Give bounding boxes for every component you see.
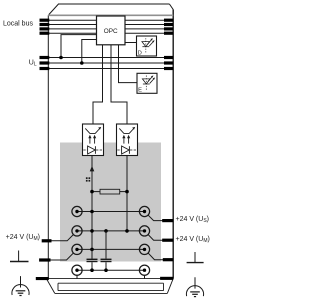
wire terminal 1.4 to PE pad left xyxy=(76,275,78,278)
wire terminal 2.1 to US pad xyxy=(148,215,163,220)
LED indicator D xyxy=(137,36,157,56)
junction row2 a xyxy=(90,229,94,233)
functional earth symbol right xyxy=(187,252,204,263)
junction row1 xyxy=(90,210,94,214)
wire OPC to optocoupler U2 xyxy=(111,45,127,124)
svg-text:OPC: OPC xyxy=(104,28,118,35)
pad FE left xyxy=(39,258,50,261)
pad +24V UM right xyxy=(162,239,173,242)
junction row2 b xyxy=(104,229,108,233)
junction resistor right xyxy=(125,190,129,194)
svg-text:+24 V (UM): +24 V (UM) xyxy=(176,236,210,244)
pad FE right xyxy=(163,258,173,261)
terminal 1.2 xyxy=(72,226,82,236)
wire terminal 1.2 to UM pad left xyxy=(49,235,73,241)
pad +24V UM left xyxy=(42,239,52,242)
local bus line 4 xyxy=(49,32,173,34)
terminal row 3 wire xyxy=(77,248,145,250)
local bus contact pads left xyxy=(40,19,50,35)
svg-text:UL: UL xyxy=(29,59,37,67)
isolated output section shading xyxy=(60,143,161,262)
wire terminal 2.4 to PE pad right xyxy=(144,275,146,278)
svg-text:E: E xyxy=(138,88,142,94)
terminal row 4 wire xyxy=(77,269,145,271)
junction row3 xyxy=(90,248,94,252)
junction row2 c xyxy=(125,229,129,233)
terminal 2.4 xyxy=(139,265,149,275)
wire optocoupler U2 output xyxy=(126,156,128,231)
UL contact pads right xyxy=(164,56,173,70)
svg-text:+24 V (UM): +24 V (UM) xyxy=(6,234,40,242)
svg-text:D: D xyxy=(138,50,142,56)
terminal 2.1 xyxy=(139,206,149,216)
UL supply line 2 xyxy=(49,62,173,64)
wire OPC to optocoupler U1 xyxy=(93,45,103,124)
optocoupler U2 xyxy=(117,124,138,156)
wire OPC to LED D xyxy=(125,42,137,44)
junction resistor left xyxy=(90,190,94,194)
pad +24V US right xyxy=(162,219,173,222)
svg-text:+24 V (US): +24 V (US) xyxy=(176,216,210,224)
terminal 1.3 xyxy=(72,244,82,254)
module foot (DIN rail base) xyxy=(47,279,174,294)
junction on UL1 xyxy=(59,56,63,60)
pad PE left xyxy=(36,277,49,280)
terminal 2.3 xyxy=(139,244,149,254)
protocol chip OPC xyxy=(97,16,126,45)
terminal 1.4 xyxy=(72,265,82,275)
wire bus tap to UL1 xyxy=(61,35,97,58)
terminal row 2 wire xyxy=(77,230,145,232)
LED indicator E xyxy=(137,73,157,93)
local bus contact pads right xyxy=(164,19,173,35)
svg-text:Local bus: Local bus xyxy=(3,21,33,28)
terminal 1.1 xyxy=(72,206,82,216)
junction row4 b xyxy=(104,268,108,272)
signal direction arrow xyxy=(90,166,95,172)
local bus line 1 xyxy=(49,19,173,21)
coding mark xyxy=(86,177,90,181)
capacitor C1 xyxy=(87,249,98,270)
protective earth symbol right xyxy=(186,277,203,296)
pad PE right xyxy=(160,277,173,280)
wire UL2 to OPC xyxy=(82,40,97,64)
protective earth symbol left xyxy=(12,276,29,295)
UL supply line 1 xyxy=(49,57,173,59)
junction row4 a xyxy=(90,268,94,272)
functional earth symbol left xyxy=(10,251,29,262)
resistor R1 xyxy=(92,189,127,194)
wire OPC to LED E xyxy=(119,45,138,83)
wire optocoupler U1 output xyxy=(91,156,93,259)
capacitor C2 xyxy=(101,231,112,270)
terminal 2.2 xyxy=(139,226,149,236)
local bus line 3 xyxy=(49,28,173,30)
UL contact pads left xyxy=(40,56,50,70)
junction on UL2 xyxy=(80,61,84,65)
module housing outline (3D terminal block) xyxy=(48,4,173,279)
module front top edge xyxy=(48,14,173,16)
optocoupler U1 xyxy=(83,124,104,156)
wire terminal 1.3 to FE pad left xyxy=(49,253,73,260)
terminal row 1 wire xyxy=(77,211,145,213)
wire terminal 2.2 to UM pad right xyxy=(148,235,163,241)
wire terminal 2.3 to FE pad right xyxy=(148,253,163,260)
local bus line 2 xyxy=(49,24,173,26)
UL supply line 3 xyxy=(49,68,173,70)
